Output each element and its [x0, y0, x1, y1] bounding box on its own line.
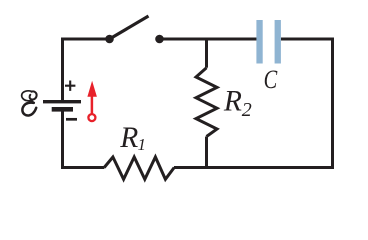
battery ℰ positive plate (long thin) — [43, 100, 81, 103]
wire: left branch top (battery + terminal up to top-left corner, across to switch) — [63, 39, 110, 100]
resistor R2 (vertical zigzag, middle branch) — [196, 68, 217, 137]
EMF script-E symbol — [22, 91, 37, 116]
battery + sign — [65, 81, 75, 91]
wire: top right (capacitor right plate to top-right corner, down right side) — [281, 39, 333, 168]
svg-text:R: R — [223, 86, 242, 118]
switch terminal dot (right) — [155, 35, 164, 44]
svg-text:R: R — [119, 122, 138, 154]
wire: R2 branch bottom (zigzag down to bottom wire junction) — [205, 137, 208, 168]
battery - sign — [66, 118, 77, 121]
battery ℰ negative plate (short thick) — [52, 107, 73, 112]
wire: bottom (R1 right end across to bottom-right corner) — [174, 166, 334, 169]
wire: R2 branch top (junction on top wire down to zigzag) — [205, 39, 208, 68]
svg-text:1: 1 — [138, 135, 147, 154]
capacitor C left plate (light blue) — [256, 20, 262, 64]
svg-text:C: C — [264, 64, 278, 94]
resistor R1 (zigzag, bottom wire) — [104, 157, 174, 179]
wire: battery - terminal down to bottom-left corner, across to R1 — [63, 112, 105, 168]
svg-text:2: 2 — [242, 99, 252, 121]
red open circle (switch handle) — [88, 114, 95, 121]
red current arrow (shaft) — [91, 96, 94, 114]
switch S blade (open, tilted up from left terminal) — [110, 16, 149, 39]
switch terminal dot (left) — [105, 35, 114, 44]
capacitor C right plate (light blue) — [275, 20, 281, 64]
wire: top middle (switch right terminal to capacitor left plate) — [160, 38, 257, 41]
red current arrow (head) — [87, 81, 97, 97]
